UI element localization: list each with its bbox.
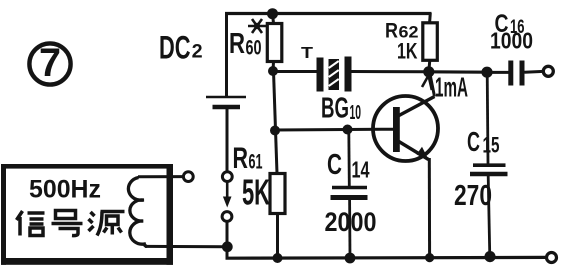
terminal output top xyxy=(543,66,553,76)
svg-text:DC: DC xyxy=(159,29,191,65)
terminal plug upper xyxy=(222,172,232,182)
wire transformer to collector node xyxy=(352,70,430,73)
wire left vertical battery feed xyxy=(225,12,228,96)
terminal source xyxy=(183,172,193,182)
wire C15 vertical top xyxy=(486,72,490,163)
junction R61 bottom xyxy=(273,253,283,263)
label R60 with asterisk xyxy=(229,19,266,60)
capacitor C16 xyxy=(487,61,544,86)
current arrow 1mA on collector xyxy=(422,76,432,91)
svg-text:14: 14 xyxy=(352,157,370,183)
capacitor C15 xyxy=(470,165,508,174)
label R62 xyxy=(385,19,419,43)
svg-text:5K: 5K xyxy=(242,172,270,213)
svg-text:500Hz: 500Hz xyxy=(29,176,101,204)
transistor BG10 xyxy=(373,96,438,161)
svg-text:R: R xyxy=(229,28,245,60)
junction output branch xyxy=(481,67,492,78)
figure number 7 xyxy=(29,41,70,85)
svg-text:15: 15 xyxy=(483,133,500,158)
wire coil top to source terminal xyxy=(138,175,184,178)
wire top bus xyxy=(225,12,432,15)
junction coil return xyxy=(222,241,233,252)
svg-text:C: C xyxy=(467,126,480,157)
junction emitter bottom xyxy=(425,253,434,262)
label DC2 xyxy=(159,29,203,65)
svg-text:61: 61 xyxy=(249,151,263,174)
svg-text:7: 7 xyxy=(39,41,61,85)
svg-text:1000: 1000 xyxy=(490,28,533,54)
battery B1 xyxy=(206,97,246,107)
resistor R60 xyxy=(267,14,282,72)
wire R60 bottom to R61 top xyxy=(274,71,278,174)
wire collector xyxy=(430,72,435,97)
junction base branch xyxy=(270,126,280,136)
signal source box xyxy=(1,164,173,265)
transformer T xyxy=(317,57,352,92)
wire emitter xyxy=(428,158,431,259)
label BG10 xyxy=(321,92,361,124)
yuan xyxy=(91,212,95,216)
label R61 xyxy=(233,142,263,175)
wire base xyxy=(275,128,393,132)
svg-text:2000: 2000 xyxy=(325,207,377,237)
svg-text:1mA: 1mA xyxy=(435,72,468,103)
wire collector node to output node xyxy=(429,70,487,74)
current arrow (down) between plugs xyxy=(223,182,232,208)
wire battery to upper plug xyxy=(226,109,229,172)
terminal plug lower xyxy=(222,212,232,222)
wire bottom bus xyxy=(226,256,547,260)
inductor coil of source xyxy=(128,178,147,247)
wire lower plug to bottom bus xyxy=(226,222,229,260)
label C15 xyxy=(467,126,500,158)
hao xyxy=(56,211,76,219)
junction C14 bottom xyxy=(345,253,356,264)
junction collector node xyxy=(423,66,434,77)
capacitor C14 xyxy=(331,130,368,258)
svg-text:T: T xyxy=(301,45,313,62)
label C14 xyxy=(327,149,370,183)
svg-text:270: 270 xyxy=(454,180,492,212)
xin xyxy=(17,211,23,220)
svg-text:1K: 1K xyxy=(397,39,418,64)
junction R60 top xyxy=(267,8,278,19)
svg-text:10: 10 xyxy=(350,102,362,124)
label xin-hao-yuan (signal source, drawn CJK) xyxy=(17,211,125,236)
svg-text:2: 2 xyxy=(192,41,203,63)
resistor R62 xyxy=(423,13,438,72)
svg-text:BG: BG xyxy=(321,92,349,124)
junction C15 bottom xyxy=(484,251,495,262)
wire C15 vertical bottom xyxy=(488,176,490,257)
svg-text:60: 60 xyxy=(246,37,262,60)
junction R60 bottom xyxy=(268,66,278,76)
svg-text:R: R xyxy=(233,142,249,175)
svg-text:C: C xyxy=(327,149,342,181)
junction C14 branch xyxy=(343,125,353,135)
resistor R61 xyxy=(270,174,285,259)
label C16 xyxy=(495,10,525,38)
terminal output bottom xyxy=(547,253,557,263)
wire R60 to transformer xyxy=(273,70,318,73)
wire coil bottom return xyxy=(145,245,227,248)
